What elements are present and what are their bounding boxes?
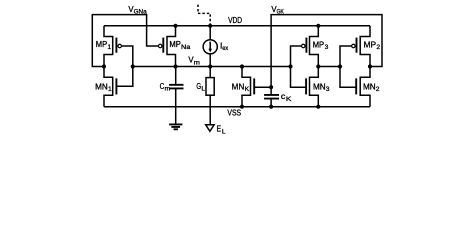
capacitor Cm top wire [175, 67, 177, 85]
wire MN2 gate to node K [340, 67, 356, 88]
transistor MP_Na gate bubble [158, 44, 162, 48]
wire node K output line [318, 66, 340, 68]
junction dot MP3/MN3 gates on Vm [288, 64, 292, 68]
svg-text:1: 1 [107, 44, 111, 51]
svg-text:MN: MN [363, 82, 376, 91]
junction dot MP_Na drain / Cm on Vm [173, 64, 177, 68]
capacitor Cm bottom wire to ground [175, 88, 177, 124]
wire MN1 gate to node Vm [116, 67, 132, 87]
svg-text:3: 3 [326, 86, 330, 93]
capacitor C_K top wire [270, 87, 272, 95]
svg-text:MP: MP [313, 40, 324, 49]
transistor MN1 gate bar [115, 78, 117, 94]
wire node Vm line [133, 66, 291, 68]
junction dot MP3 source on VDD [316, 24, 320, 28]
wire V_GNa left drop to node A [92, 14, 104, 67]
transistor MP3 gate bar [305, 38, 307, 53]
wire V_GK left drop to MN_K gate [270, 14, 272, 87]
junction dot I_ex on VDD [208, 24, 212, 28]
svg-text:MP: MP [96, 40, 107, 49]
svg-text:L: L [222, 128, 226, 135]
svg-text:3: 3 [325, 44, 329, 51]
svg-text:MN: MN [95, 82, 108, 91]
current source I_ex arrow [209, 42, 211, 50]
junction dot MN_K source on VSS [240, 105, 244, 109]
transistor MP2 gate bar [356, 38, 358, 53]
transistor MN2 gate bar [355, 78, 357, 94]
svg-text:MN: MN [232, 82, 245, 91]
capacitor C_K bottom wire to VSS [270, 99, 272, 107]
svg-text:VSS: VSS [227, 109, 241, 118]
junction dot node A (V_GNa, MP1 drain, MN1 drain) [102, 64, 106, 68]
wire MP3 gate to node Vm [291, 46, 302, 67]
transistor MN2 drain-channel-source [360, 67, 370, 107]
conductance G_L top wire [209, 67, 211, 78]
junction dot MN3 source on VSS [316, 105, 320, 109]
ground symbol under Cm [169, 124, 182, 129]
transistor MP1 gate bar [115, 38, 117, 53]
current source I_ex wire to node Vm [209, 54, 211, 67]
svg-text:MP: MP [364, 40, 377, 49]
current source I_ex arrowhead [208, 49, 212, 53]
transistor MP1 source-channel-drain [104, 26, 113, 67]
wire V_GNa rail [92, 14, 146, 16]
junction dot MP3/MN3 drains on node K [316, 64, 320, 68]
transistor MP3 gate bubble [302, 44, 306, 48]
transistor MN3 gate bar [305, 78, 307, 94]
terminal E_L triangle [206, 125, 214, 132]
transistor MP_Na source-channel-drain [167, 26, 176, 67]
transistor MN3 drain-channel-source [310, 67, 319, 107]
junction dot MN_K gate / C_K on V_GK [269, 85, 273, 89]
svg-text:Na: Na [181, 44, 191, 51]
svg-text:2: 2 [376, 44, 380, 51]
junction dot MP1/MN1 gates on Vm [131, 64, 135, 68]
transistor MP2 gate bubble [352, 44, 356, 48]
capacitor Cm plates [169, 85, 184, 89]
junction dot MP2 drain / V_GK link [368, 64, 372, 68]
current source I_ex wire from VDD [209, 26, 211, 40]
transistor MN1 drain-channel-source [104, 67, 113, 107]
transistor MN_K gate bar [253, 78, 255, 94]
junction dot C_K on VSS [269, 105, 273, 109]
junction dot I_ex / G_L on Vm [208, 64, 212, 68]
svg-text:VDD: VDD [228, 16, 242, 25]
svg-text:L: L [201, 86, 205, 93]
svg-text:2: 2 [376, 86, 380, 93]
wire MN_K gate to V_GK [254, 86, 271, 88]
svg-text:c: c [281, 92, 286, 101]
svg-text:Vm: Vm [188, 56, 200, 67]
capacitor C_K plates [264, 95, 279, 99]
transistor MP2 source-channel-drain [360, 26, 370, 67]
transistor MP1 gate bubble [118, 44, 122, 48]
transistor MN_K drain-channel-source [242, 67, 251, 107]
svg-text:K: K [245, 86, 250, 93]
svg-text:1: 1 [108, 86, 112, 93]
wire VDD rail [104, 25, 370, 27]
wire V_GK rail [271, 14, 382, 16]
junction dot MN_K drain on Vm [240, 64, 244, 68]
junction dot MP2/MN2 gates on node K [338, 64, 342, 68]
svg-text:K: K [286, 96, 292, 103]
wire MP1 gate to node Vm [122, 46, 133, 67]
transistor MP3 source-channel-drain [310, 26, 319, 67]
transistor MP_Na gate bar [162, 38, 164, 53]
svg-text:E: E [217, 125, 222, 134]
svg-text:MP: MP [169, 40, 180, 49]
wire dashed external input to I_ex [198, 5, 210, 26]
wire MN3 gate to node Vm [291, 67, 307, 88]
svg-text:m: m [165, 86, 171, 93]
conductance G_L bottom wire to E_L [209, 95, 211, 125]
junction dot MP_Na source on VDD [173, 24, 177, 28]
wire VSS rail [104, 106, 370, 108]
wire V_GK right drop to MP2 drain [370, 14, 382, 67]
conductance G_L box [206, 78, 214, 96]
current source I_ex circle [203, 40, 217, 54]
wire MP2 gate to node K [340, 46, 351, 67]
svg-text:Iex: Iex [220, 41, 229, 52]
wire V_GNa right drop to MP_Na gate [147, 14, 159, 46]
svg-text:MN: MN [313, 82, 326, 91]
